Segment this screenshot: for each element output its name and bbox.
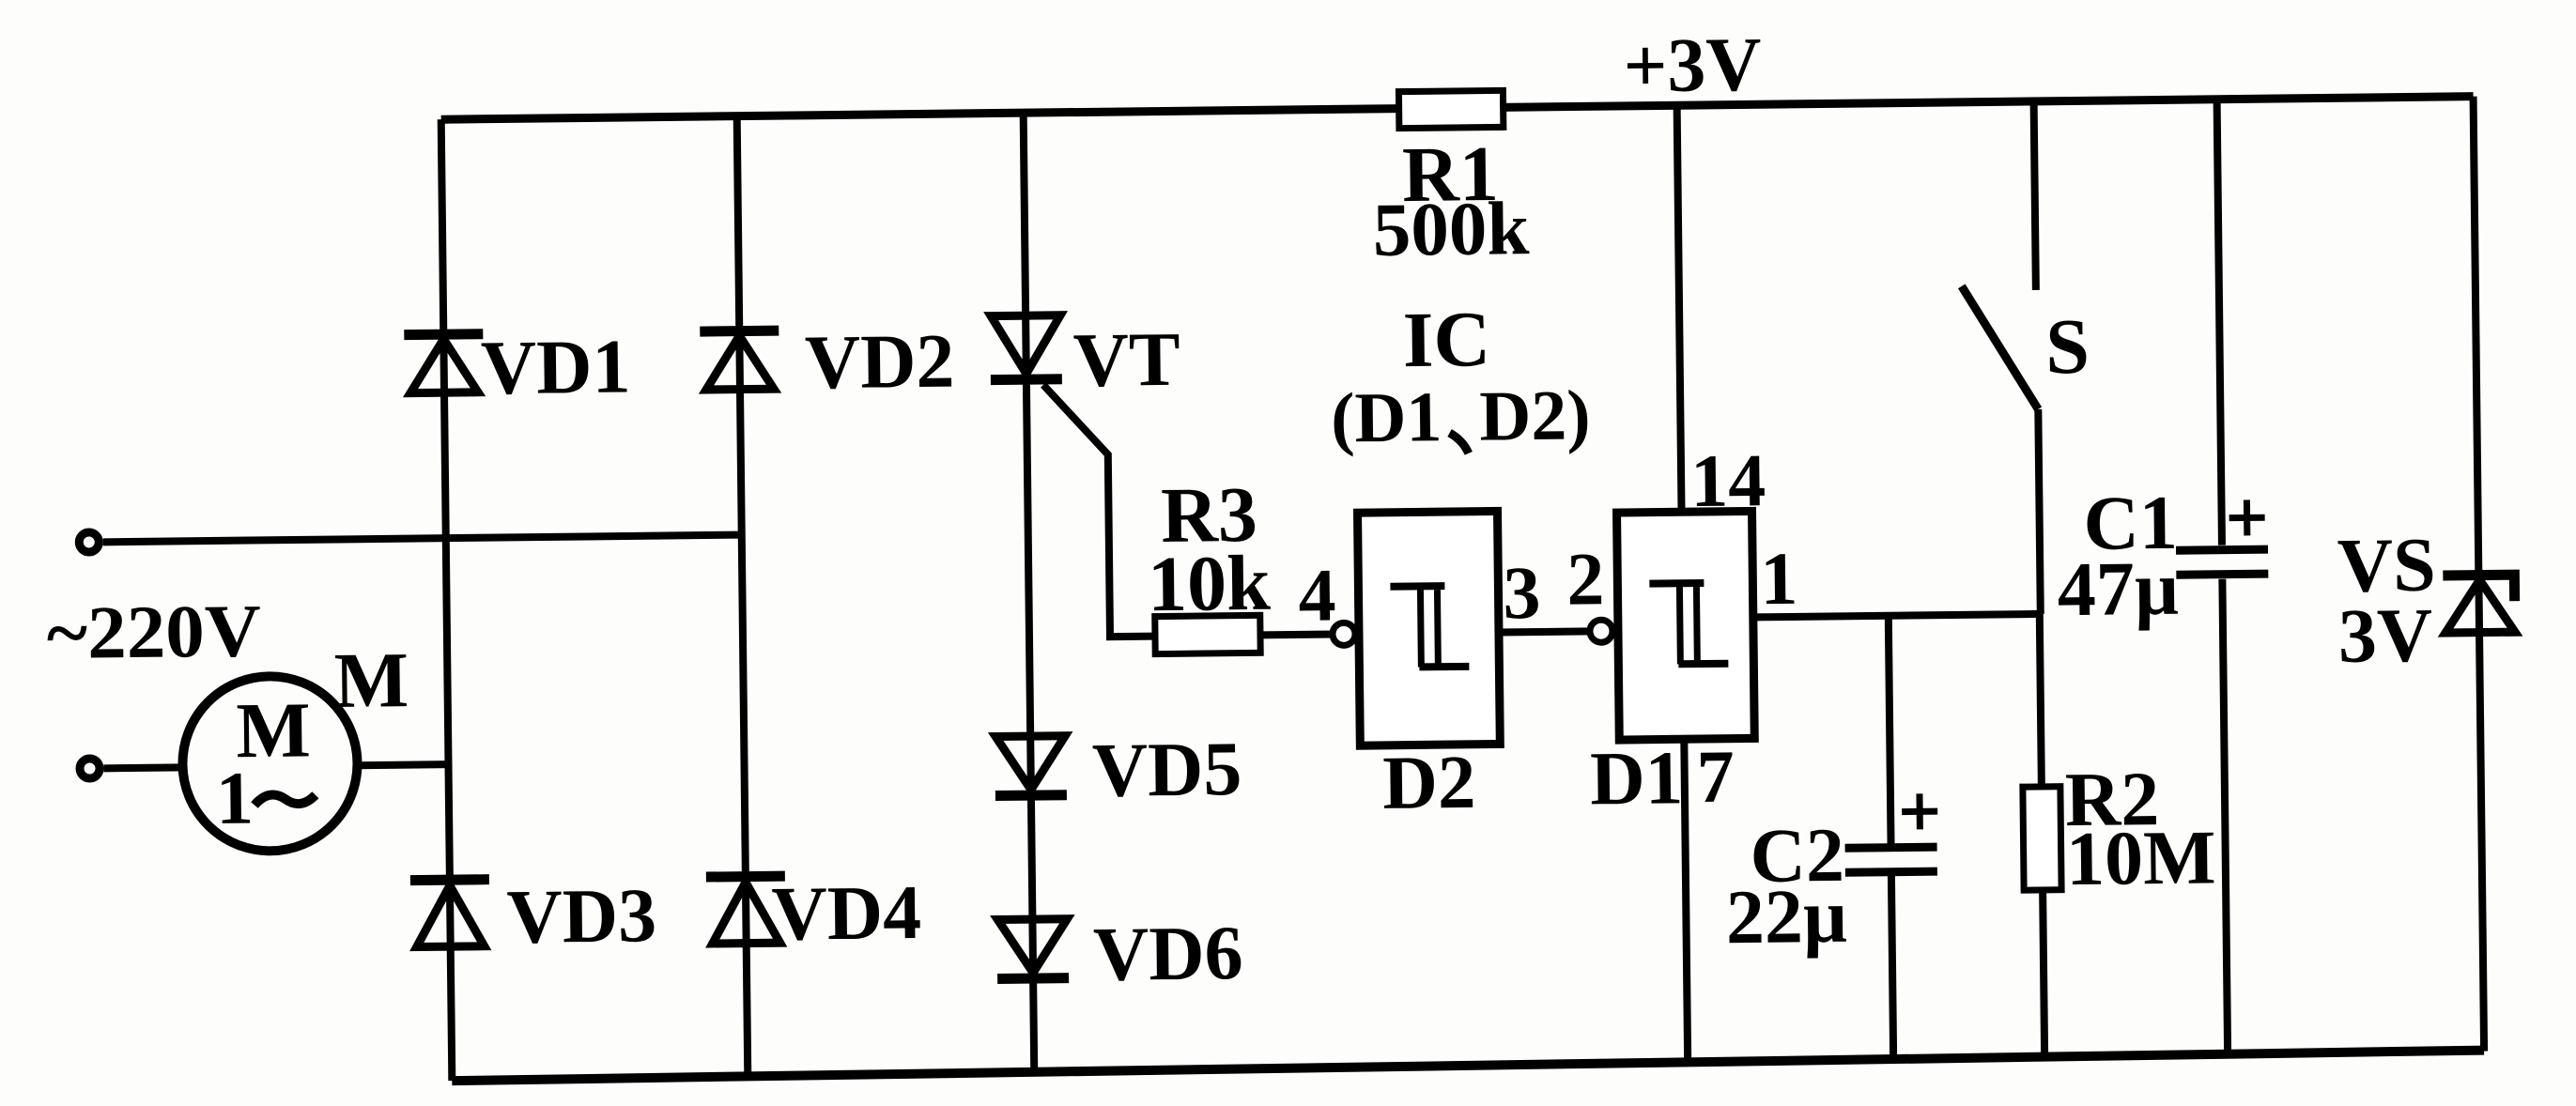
svg-text:4: 4 [1298, 554, 1336, 637]
diode VD2 [700, 318, 955, 407]
svg-text:3V: 3V [2337, 592, 2432, 679]
resistor R1 [1371, 90, 1530, 272]
svg-text:10M: 10M [2066, 814, 2216, 901]
Schmitt inverter D1 [1587, 511, 1755, 821]
wire: bridge left rail (VD1/VD3) [441, 119, 453, 1081]
label IC [1402, 296, 1490, 384]
diode VD1 [404, 323, 631, 411]
thyristor VT [990, 314, 1180, 404]
diode VD6 [996, 910, 1243, 998]
pin label 7 [1696, 736, 1735, 819]
svg-text:VT: VT [1072, 316, 1180, 403]
Schmitt inverter D2 [1358, 511, 1502, 825]
svg-text:VD4: VD4 [771, 869, 921, 957]
svg-text:+3V: +3V [1623, 22, 1762, 109]
svg-text:D2): D2) [1479, 376, 1591, 455]
wire: VT gate [1043, 384, 1155, 637]
pin label 4 [1298, 554, 1336, 637]
motor M [181, 675, 358, 852]
wire: R3 to pin 4 [1260, 630, 1334, 638]
svg-text:3: 3 [1503, 552, 1541, 635]
wire: bottom return rail [452, 1051, 2484, 1082]
svg-text:1: 1 [1760, 538, 1798, 621]
svg-text:VD1: VD1 [480, 323, 630, 410]
svg-text:VD6: VD6 [1093, 910, 1243, 997]
terminal: AC input upper [79, 532, 99, 552]
wire: pin 1 output [1753, 614, 2040, 617]
resistor R2 [2021, 612, 2218, 1057]
svg-text:1: 1 [215, 758, 254, 840]
svg-text:D1: D1 [1590, 735, 1684, 821]
wire: upper AC lead [103, 535, 742, 543]
pin label 2 [1566, 538, 1605, 621]
wire: lower AC lead [104, 763, 183, 772]
inverter input bubble pin 2 [1590, 620, 1612, 642]
capacitor C1 [2052, 99, 2274, 1055]
svg-text:500k: 500k [1372, 186, 1530, 272]
wire: D2 output to D1 input [1499, 631, 1591, 632]
wire: bridge right rail (VD2/VD4) [737, 116, 748, 1077]
svg-text:(D1: (D1 [1331, 377, 1442, 457]
label +3V [1623, 22, 1762, 109]
svg-text:VD3: VD3 [506, 872, 656, 960]
resistor R3 [1147, 471, 1272, 654]
svg-text:47µ: 47µ [2057, 545, 2179, 632]
pin label 3 [1503, 552, 1541, 635]
svg-text:D2: D2 [1382, 740, 1476, 825]
wire: thyristor branch rail (VT/VD5/VD6) [1024, 113, 1035, 1072]
zener diode VS [2337, 521, 2515, 679]
svg-text:VD2: VD2 [804, 318, 954, 406]
wire: pin 7 to bottom rail [1684, 739, 1688, 1063]
terminal: AC input lower [80, 759, 100, 778]
svg-text:VD5: VD5 [1091, 726, 1242, 813]
diode VD4 [706, 869, 922, 958]
pin label 14 [1690, 439, 1766, 523]
inverter input bubble pin 4 [1333, 622, 1355, 645]
svg-text:IC: IC [1402, 296, 1490, 384]
svg-text:14: 14 [1690, 439, 1766, 523]
wire: +3V top rail [441, 97, 2474, 120]
wire: pin 14 to +3V rail [1677, 105, 1682, 512]
svg-text:2: 2 [1566, 538, 1605, 621]
label ~220V [46, 590, 261, 675]
svg-text:~220V: ~220V [46, 590, 261, 675]
capacitor C2 [1722, 615, 1940, 1062]
label M [333, 637, 409, 725]
svg-text:10k: 10k [1147, 540, 1271, 628]
svg-text:7: 7 [1696, 736, 1735, 819]
wire: right rail [2474, 97, 2485, 1052]
diode VD3 [410, 872, 657, 960]
pin label 1 [1760, 538, 1798, 621]
svg-text:22µ: 22µ [1725, 873, 1847, 960]
switch S [1960, 100, 2093, 615]
svg-text:S: S [2045, 303, 2090, 392]
label (D1,D2) [1331, 376, 1591, 457]
wire: motor to bridge [358, 764, 449, 765]
diode VD5 [995, 726, 1242, 814]
svg-text:M: M [333, 637, 409, 725]
